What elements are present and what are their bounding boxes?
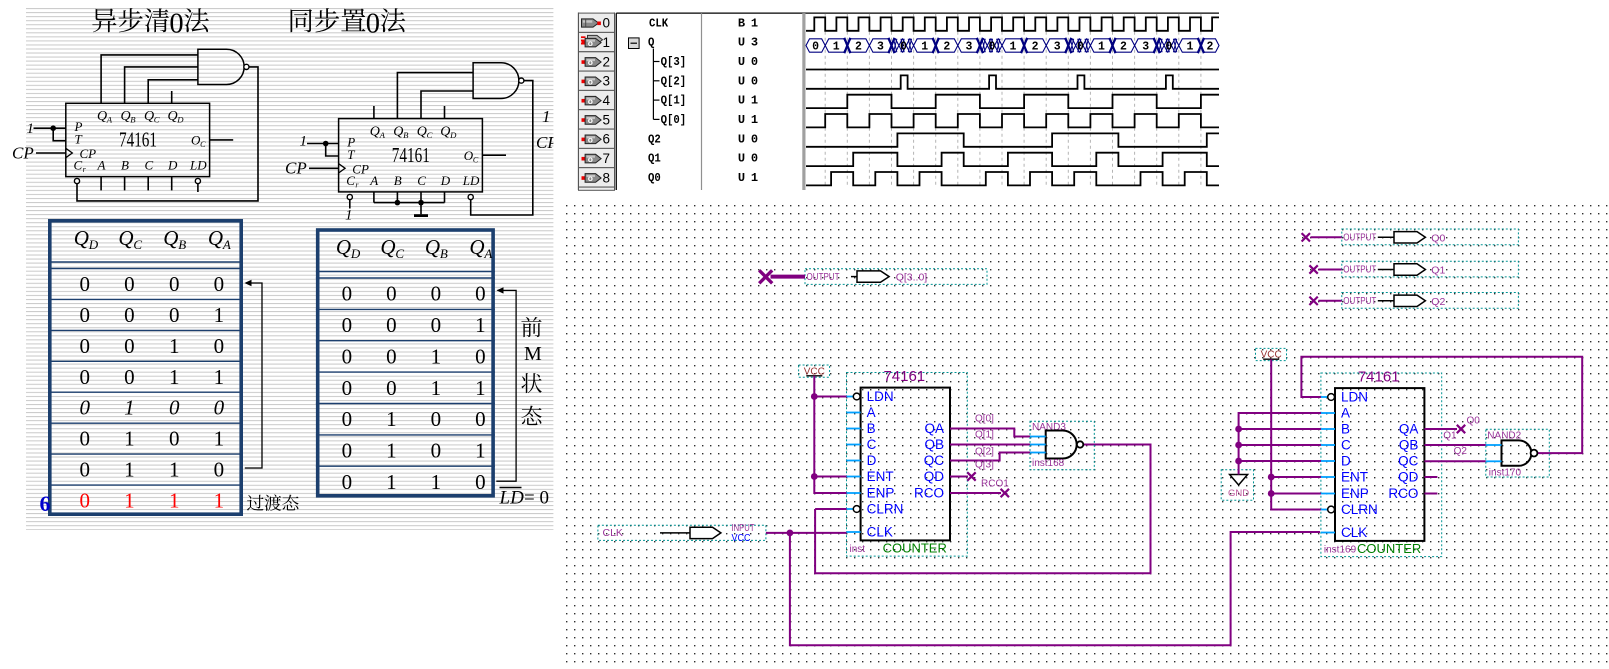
svg-text:CLRN: CLRN — [1341, 502, 1378, 517]
svg-text:B: B — [130, 115, 136, 125]
svg-text:QB: QB — [924, 437, 944, 452]
svg-text:0: 0 — [79, 272, 90, 296]
svg-text:U: U — [738, 55, 745, 69]
svg-text:1: 1 — [751, 94, 758, 108]
svg-text:1: 1 — [345, 208, 353, 224]
svg-text:RCO: RCO — [914, 486, 944, 501]
svg-text:3: 3 — [751, 36, 758, 50]
svg-text:B: B — [178, 237, 186, 252]
svg-text:Q: Q — [380, 235, 395, 259]
svg-text:1: 1 — [386, 439, 397, 463]
svg-text:o: o — [588, 38, 593, 48]
svg-text:A: A — [379, 130, 386, 140]
svg-text:Q: Q — [440, 124, 450, 139]
svg-text:1: 1 — [751, 171, 758, 185]
svg-text:A: A — [1341, 406, 1350, 421]
svg-text:o: o — [588, 134, 593, 144]
svg-text:A: A — [483, 246, 492, 261]
svg-text:LD: LD — [462, 173, 480, 188]
svg-text:1: 1 — [751, 113, 758, 127]
svg-text:1: 1 — [214, 489, 225, 513]
svg-text:C: C — [473, 155, 479, 164]
svg-text:1: 1 — [169, 365, 180, 389]
svg-text:0: 0 — [1077, 40, 1084, 53]
svg-text:Q0: Q0 — [1467, 416, 1481, 427]
svg-text:74161: 74161 — [883, 368, 925, 385]
svg-text:D: D — [176, 115, 184, 125]
svg-text:D: D — [1341, 454, 1351, 469]
svg-text:0: 0 — [124, 334, 135, 358]
svg-text:1: 1 — [431, 344, 442, 368]
svg-text:Q: Q — [118, 226, 133, 250]
svg-text:0: 0 — [214, 334, 225, 358]
svg-text:Q: Q — [469, 235, 484, 259]
svg-text:CLK: CLK — [867, 525, 893, 540]
svg-text:CP: CP — [12, 144, 34, 163]
svg-text:3: 3 — [965, 40, 972, 53]
svg-text:Q: Q — [336, 235, 351, 259]
svg-text:C: C — [74, 158, 83, 173]
svg-text:C: C — [133, 237, 142, 252]
svg-text:RCO1: RCO1 — [981, 479, 1009, 490]
svg-text:1: 1 — [124, 396, 135, 420]
svg-text:1: 1 — [431, 376, 442, 400]
svg-text:ENP: ENP — [867, 486, 895, 501]
svg-text:0: 0 — [79, 396, 90, 420]
svg-text:1: 1 — [124, 458, 135, 482]
svg-text:0: 0 — [79, 427, 90, 451]
svg-text:0: 0 — [214, 272, 225, 296]
svg-text:COUNTER: COUNTER — [883, 541, 947, 556]
svg-text:C: C — [867, 437, 877, 452]
svg-text:0: 0 — [431, 407, 442, 431]
svg-text:0: 0 — [169, 272, 180, 296]
svg-text:D: D — [167, 158, 178, 173]
svg-text:74161: 74161 — [392, 143, 430, 167]
svg-text:0: 0 — [79, 365, 90, 389]
svg-text:Q: Q — [425, 235, 440, 259]
svg-text:3: 3 — [603, 74, 611, 89]
svg-text:0: 0 — [989, 40, 996, 53]
svg-text:1: 1 — [214, 303, 225, 327]
svg-text:3: 3 — [877, 40, 884, 53]
svg-text:0: 0 — [751, 132, 758, 146]
svg-text:1: 1 — [603, 35, 611, 50]
svg-text:0: 0 — [751, 55, 758, 69]
svg-text:U: U — [738, 132, 745, 146]
svg-text:ENP: ENP — [1341, 486, 1369, 501]
svg-text:Q: Q — [74, 226, 89, 250]
svg-text:B: B — [738, 16, 745, 30]
svg-text:OUTPUT: OUTPUT — [1343, 295, 1376, 307]
svg-text:LDN: LDN — [867, 389, 894, 404]
svg-text:1: 1 — [169, 489, 180, 513]
svg-text:U: U — [738, 94, 745, 108]
svg-text:Q: Q — [417, 124, 427, 139]
svg-text:0: 0 — [342, 376, 353, 400]
svg-text:0: 0 — [79, 334, 90, 358]
svg-text:C: C — [1341, 438, 1351, 453]
svg-text:0: 0 — [386, 313, 397, 337]
svg-text:D: D — [440, 173, 451, 188]
svg-text:B: B — [1341, 422, 1350, 437]
svg-text:0: 0 — [386, 376, 397, 400]
svg-text:CLK: CLK — [649, 16, 669, 30]
svg-text:D: D — [350, 246, 361, 261]
svg-text:1: 1 — [214, 427, 225, 451]
svg-text:A: A — [222, 237, 231, 252]
svg-text:o: o — [588, 115, 593, 125]
svg-text:0: 0 — [475, 282, 486, 306]
svg-text:7: 7 — [603, 151, 611, 166]
svg-text:8: 8 — [603, 170, 611, 185]
svg-text:A: A — [867, 405, 876, 420]
svg-text:0: 0 — [169, 427, 180, 451]
svg-text:CLK: CLK — [1341, 525, 1367, 540]
svg-text:Q[2]: Q[2] — [661, 74, 687, 88]
svg-text:Q1: Q1 — [648, 152, 661, 166]
svg-text:= 0: = 0 — [524, 488, 549, 509]
svg-text:QA: QA — [1399, 422, 1419, 437]
svg-text:0: 0 — [169, 8, 183, 39]
svg-text:1: 1 — [833, 40, 840, 53]
svg-text:2: 2 — [603, 54, 611, 69]
svg-text:0: 0 — [366, 8, 380, 39]
svg-text:Q: Q — [144, 109, 154, 124]
svg-text:1: 1 — [542, 107, 551, 126]
svg-text:Q[2]: Q[2] — [975, 447, 994, 458]
svg-text:0: 0 — [900, 40, 907, 53]
svg-text:1: 1 — [921, 40, 928, 53]
svg-text:Q: Q — [121, 109, 131, 124]
svg-text:C: C — [346, 173, 355, 188]
svg-text:0: 0 — [751, 152, 758, 166]
svg-text:A: A — [106, 115, 113, 125]
svg-text:LDN: LDN — [1341, 390, 1368, 405]
svg-text:U: U — [738, 36, 745, 50]
svg-text:ENT: ENT — [1341, 470, 1368, 485]
svg-text:RCO: RCO — [1388, 486, 1418, 501]
svg-text:1: 1 — [124, 427, 135, 451]
svg-text:0: 0 — [124, 272, 135, 296]
svg-text:0: 0 — [79, 303, 90, 327]
svg-text:o: o — [588, 57, 593, 67]
svg-text:M: M — [524, 343, 542, 365]
svg-text:0: 0 — [124, 365, 135, 389]
svg-text:Q[1]: Q[1] — [975, 430, 994, 441]
svg-text:C: C — [154, 115, 160, 125]
svg-text:1: 1 — [1098, 40, 1105, 53]
svg-text:o: o — [588, 173, 593, 183]
svg-text:0: 0 — [475, 407, 486, 431]
svg-text:1: 1 — [475, 376, 486, 400]
svg-text:0: 0 — [812, 40, 819, 53]
svg-text:QD: QD — [924, 469, 945, 484]
svg-text:0: 0 — [431, 439, 442, 463]
svg-text:GND: GND — [1228, 488, 1249, 499]
svg-text:3: 3 — [1054, 40, 1061, 53]
svg-text:Q2: Q2 — [1431, 296, 1445, 308]
svg-text:Q: Q — [208, 226, 223, 250]
svg-text:5: 5 — [603, 112, 611, 127]
svg-text:0: 0 — [431, 282, 442, 306]
svg-text:0: 0 — [124, 303, 135, 327]
svg-text:1: 1 — [1186, 40, 1193, 53]
svg-text:Q2: Q2 — [648, 132, 661, 146]
svg-text:T: T — [75, 132, 83, 147]
svg-text:B: B — [121, 158, 129, 173]
svg-text:0: 0 — [603, 16, 611, 31]
svg-text:C: C — [200, 140, 206, 149]
svg-text:T: T — [347, 147, 355, 162]
svg-text:Q: Q — [393, 124, 403, 139]
svg-text:C: C — [395, 246, 404, 261]
svg-text:0: 0 — [169, 396, 180, 420]
svg-text:6: 6 — [603, 132, 611, 147]
svg-text:o: o — [588, 76, 593, 86]
svg-text:Q[3]: Q[3] — [661, 55, 687, 69]
svg-text:2: 2 — [855, 40, 862, 53]
svg-text:o: o — [588, 96, 593, 106]
svg-text:Q: Q — [168, 109, 178, 124]
svg-text:0: 0 — [214, 458, 225, 482]
svg-text:0: 0 — [342, 313, 353, 337]
svg-text:B: B — [440, 246, 448, 261]
svg-text:0: 0 — [342, 344, 353, 368]
svg-text:QC: QC — [1398, 454, 1419, 469]
svg-text:0: 0 — [214, 396, 225, 420]
svg-text:1: 1 — [475, 313, 486, 337]
svg-text:74161: 74161 — [1358, 369, 1400, 386]
svg-text:COUNTER: COUNTER — [1357, 541, 1421, 556]
svg-text:Q1: Q1 — [1443, 431, 1457, 442]
svg-text:QA: QA — [924, 421, 944, 436]
svg-text:0: 0 — [751, 74, 758, 88]
svg-text:Q[1]: Q[1] — [661, 94, 687, 108]
svg-text:CLRN: CLRN — [867, 502, 904, 517]
svg-text:QD: QD — [1398, 470, 1419, 485]
svg-text:0: 0 — [431, 313, 442, 337]
svg-text:Q: Q — [370, 124, 380, 139]
svg-text:Q[0]: Q[0] — [975, 414, 994, 425]
svg-text:A: A — [97, 158, 106, 173]
svg-text:0: 0 — [475, 344, 486, 368]
svg-text:D: D — [449, 130, 457, 140]
svg-text:D: D — [867, 453, 877, 468]
svg-text:inst: inst — [850, 544, 866, 555]
svg-text:CP: CP — [285, 159, 307, 178]
svg-text:Q: Q — [97, 109, 107, 124]
svg-text:OUTPUT: OUTPUT — [807, 271, 840, 283]
svg-text:Q[0]: Q[0] — [661, 113, 687, 127]
svg-text:6: 6 — [40, 491, 51, 516]
svg-text:1: 1 — [431, 470, 442, 494]
svg-text:2: 2 — [1207, 40, 1214, 53]
svg-text:ENT: ENT — [867, 469, 894, 484]
svg-text:2: 2 — [943, 40, 950, 53]
svg-text:C: C — [427, 130, 433, 140]
svg-text:2: 2 — [1120, 40, 1127, 53]
svg-text:inst169: inst169 — [1324, 545, 1357, 556]
svg-text:Q1: Q1 — [1431, 265, 1445, 277]
svg-text:VCC: VCC — [732, 533, 751, 544]
svg-text:QC: QC — [924, 453, 945, 468]
svg-text:1: 1 — [169, 458, 180, 482]
svg-text:0: 0 — [79, 489, 90, 513]
svg-text:LD: LD — [499, 488, 525, 509]
svg-text:Q: Q — [163, 226, 178, 250]
svg-text:Q: Q — [648, 36, 654, 50]
svg-text:1: 1 — [124, 489, 135, 513]
svg-text:1: 1 — [386, 407, 397, 431]
svg-text:0: 0 — [342, 439, 353, 463]
svg-text:U: U — [738, 113, 745, 127]
svg-text:inst168: inst168 — [1032, 458, 1065, 469]
svg-text:1: 1 — [169, 334, 180, 358]
svg-text:Q0: Q0 — [648, 171, 661, 185]
svg-text:0: 0 — [386, 282, 397, 306]
svg-text:Q[3..0]: Q[3..0] — [896, 272, 928, 284]
svg-text:0: 0 — [1165, 40, 1172, 53]
svg-text:U: U — [738, 74, 745, 88]
svg-text:OUTPUT: OUTPUT — [1343, 264, 1376, 276]
svg-text:3: 3 — [1142, 40, 1149, 53]
svg-text:B: B — [867, 421, 876, 436]
svg-text:B: B — [403, 130, 409, 140]
svg-text:inst170: inst170 — [1489, 467, 1522, 478]
svg-text:0: 0 — [79, 458, 90, 482]
svg-text:1: 1 — [27, 121, 35, 137]
svg-text:1: 1 — [386, 470, 397, 494]
svg-text:0: 0 — [386, 344, 397, 368]
svg-text:A: A — [369, 173, 378, 188]
svg-text:Q2: Q2 — [1454, 446, 1468, 457]
svg-text:QB: QB — [1399, 438, 1419, 453]
svg-text:2: 2 — [1032, 40, 1039, 53]
svg-text:LD: LD — [189, 158, 207, 173]
svg-text:1: 1 — [300, 134, 308, 150]
svg-text:0: 0 — [475, 470, 486, 494]
svg-text:1: 1 — [1010, 40, 1017, 53]
svg-text:Q0: Q0 — [1431, 232, 1445, 244]
svg-text:74161: 74161 — [119, 128, 157, 152]
svg-text:o: o — [588, 154, 593, 164]
svg-text:1: 1 — [475, 439, 486, 463]
svg-text:0: 0 — [342, 470, 353, 494]
svg-text:1: 1 — [751, 16, 758, 30]
svg-text:1: 1 — [214, 365, 225, 389]
svg-text:C: C — [417, 173, 426, 188]
svg-text:0: 0 — [169, 303, 180, 327]
svg-text:0: 0 — [342, 282, 353, 306]
svg-text:B: B — [394, 173, 402, 188]
svg-text:OUTPUT: OUTPUT — [1343, 232, 1376, 244]
svg-text:U: U — [738, 171, 745, 185]
svg-text:0: 0 — [342, 407, 353, 431]
svg-text:4: 4 — [603, 93, 611, 108]
svg-text:Q[3]: Q[3] — [975, 459, 994, 470]
svg-text:D: D — [88, 237, 99, 252]
svg-text:C: C — [145, 158, 154, 173]
svg-text:CLK: CLK — [603, 527, 623, 539]
svg-text:U: U — [738, 152, 745, 166]
